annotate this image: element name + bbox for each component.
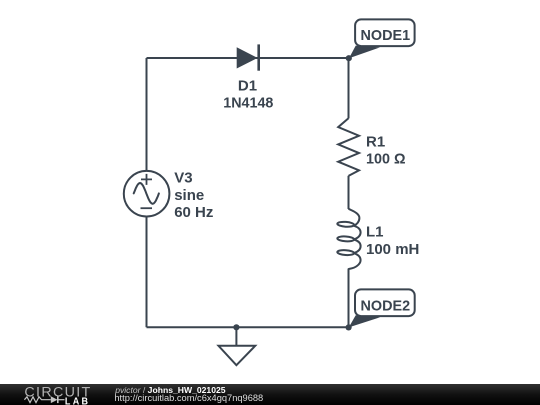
wire right middle (R1 to L1) [348, 176, 350, 209]
label D1 1N4148 [223, 77, 273, 111]
junction dot NODE1 [346, 55, 352, 61]
svg-text:http://circuitlab.com/c6x4gq7n: http://circuitlab.com/c6x4gq7nq9688 [114, 393, 263, 403]
svg-text:60 Hz: 60 Hz [174, 204, 213, 221]
footer logo LAB text [65, 396, 91, 405]
svg-text:100 mH: 100 mH [366, 241, 419, 258]
junction dot NODE2 [346, 324, 352, 330]
svg-text:NODE1: NODE1 [361, 27, 411, 44]
footer credit line [114, 385, 263, 403]
label NODE2 [361, 298, 411, 315]
svg-text:NODE2: NODE2 [361, 298, 411, 315]
voltage source V3 circle [124, 171, 170, 217]
ground stub wire [235, 327, 237, 346]
footer bar [0, 384, 540, 405]
wire bottom (V3 to NODE2) [147, 326, 349, 328]
junction dot ground [233, 324, 239, 330]
svg-text:LAB: LAB [65, 396, 91, 405]
footer logo CIRCUIT text [24, 385, 91, 401]
node NODE1 flag tail [349, 46, 380, 59]
inductor L1 coil [337, 209, 360, 269]
svg-text:100 Ω: 100 Ω [366, 151, 406, 168]
wire left (top corner through V3 to bottom corner) [146, 58, 148, 327]
svg-text:D1: D1 [238, 77, 257, 94]
wire right upper (NODE1 to R1) [348, 58, 350, 118]
svg-text:sine: sine [174, 187, 204, 204]
svg-text:1N4148: 1N4148 [223, 95, 273, 112]
svg-text:L1: L1 [366, 224, 384, 241]
label V3 sine 60 Hz [174, 170, 213, 222]
node NODE2 flag box [355, 289, 415, 316]
resistor R1 zigzag [338, 118, 359, 176]
diode D1 triangle [237, 47, 258, 68]
voltage source V3 plus sign [141, 174, 152, 185]
footer logo resistor-diode glyph [24, 396, 64, 403]
label R1 100 Ohm [366, 133, 406, 167]
label NODE1 [361, 27, 411, 44]
node NODE1 flag box [355, 19, 415, 46]
svg-text:V3: V3 [174, 170, 192, 187]
node NODE2 flag tail [349, 315, 380, 327]
ground triangle [219, 346, 256, 365]
svg-text:R1: R1 [366, 133, 385, 150]
voltage source V3 sine symbol [134, 183, 159, 204]
diode D1 cathode bar [257, 44, 260, 70]
label L1 100 mH [366, 224, 419, 258]
wire top (V3 to NODE1) [147, 57, 349, 59]
voltage source V3 minus sign [141, 207, 153, 209]
wire right lower (L1 to NODE2) [348, 269, 350, 327]
